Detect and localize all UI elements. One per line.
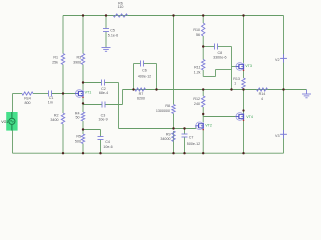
svg-text:1: 1 [234,81,236,85]
wire C2 output branch [83,83,119,129]
svg-text:3900: 3900 [73,60,81,64]
svg-text:C4: C4 [105,140,110,144]
svg-text:110: 110 [118,5,124,9]
wire right supply column [283,16,285,154]
svg-text:4: 4 [261,97,263,101]
wire VT4 gate wire [203,114,236,117]
resistor R13 1 [233,77,245,89]
resistor R9 34000 [160,131,175,142]
svg-text:C8: C8 [217,51,222,55]
wire feedback column R8-R9 [173,16,175,154]
svg-text:10e-9: 10e-9 [98,118,107,122]
transistor VT4 [236,113,253,121]
svg-text:10e-6: 10e-6 [103,145,112,149]
resistor R7 6200 [135,88,146,101]
svg-text:6200: 6200 [137,97,145,101]
svg-text:C7: C7 [189,136,194,140]
svg-text:R1: R1 [53,55,58,59]
wire input gate net [13,94,76,154]
svg-text:1300000: 1300000 [156,109,170,113]
svg-text:V3: V3 [275,134,279,138]
resistor R10 56 [193,23,205,37]
resistor R3 3900 [73,54,85,65]
svg-text:5.1e-6: 5.1e-6 [108,34,118,38]
wire ground stub right [284,89,307,91]
transistor VT1 [75,90,91,98]
capacitor C3 10e-9 [98,102,107,122]
svg-text:1m: 1m [48,101,53,105]
svg-text:R9: R9 [166,132,171,136]
svg-text:500: 500 [75,139,81,143]
resistor R8 1300000 [156,104,175,114]
wire C5 branch [105,16,107,48]
svg-text:25k: 25k [52,60,58,64]
resistor R4 50 [75,112,85,122]
svg-text:R10: R10 [193,28,200,32]
battery V2 [275,54,287,62]
battery V3 [275,130,287,138]
resistor R1 25k [52,54,65,65]
source VG1 [1,112,17,131]
svg-text:R8: R8 [165,104,170,108]
svg-text:R5: R5 [76,135,81,139]
svg-text:VT3: VT3 [245,64,252,68]
svg-text:240: 240 [194,102,200,106]
svg-text:400e-12: 400e-12 [138,74,151,78]
resistor Rs4 800 [22,92,33,105]
wire C3 source branch [83,90,123,105]
wire C8 gate net [203,47,236,90]
svg-text:800: 800 [24,101,30,105]
svg-text:VT2: VT2 [205,124,212,128]
svg-text:R13: R13 [233,77,240,81]
wire bottom supply rail [13,152,284,154]
capacitor C8 3300e-6 [213,44,226,60]
svg-text:VG1: VG1 [1,120,8,124]
resistor R6 110 [113,1,127,17]
pin dot VT4 drain [242,109,244,111]
svg-text:3300e-6: 3300e-6 [213,56,226,60]
resistor R2 3400 [50,113,64,124]
svg-text:68e-4: 68e-4 [99,91,108,95]
resistor R12 240 [193,96,205,107]
ground right [302,90,311,98]
wire C7 branch [184,129,186,154]
svg-text:R3: R3 [77,55,82,59]
svg-text:VT4: VT4 [246,115,253,119]
capacitor C4 10e-6 [98,137,113,149]
svg-text:VT1: VT1 [85,91,92,95]
svg-text:C1: C1 [49,96,54,100]
svg-text:50: 50 [75,116,79,120]
resistor R14 4 [257,88,268,101]
resistor R11 1.2k [194,60,205,75]
svg-text:R11: R11 [194,65,200,69]
svg-text:3400: 3400 [50,118,58,122]
wire top supply rail [63,15,284,17]
svg-text:R12: R12 [193,97,200,101]
transistor VT2 [195,122,211,130]
svg-text:C5: C5 [110,28,115,32]
svg-text:500e-12: 500e-12 [187,142,200,146]
wire C4 branch [83,130,101,154]
capacitor C1 1m [48,91,54,105]
wire VT4 drain-source [243,90,245,154]
wire lower net y128 [119,126,196,129]
svg-text:R2: R2 [54,114,59,118]
capacitor C6 400e-12 [138,61,151,79]
wire left column R1-R2 [62,16,64,154]
capacitor C2 68e-4 [99,80,108,95]
transistor VT3 [236,63,252,71]
svg-text:34000: 34000 [160,137,170,141]
svg-text:V2: V2 [275,58,279,62]
wire VT3 drain-source column [243,16,245,90]
capacitor C7 500e-12 [182,134,201,146]
svg-text:56: 56 [196,33,200,37]
resistor R5 500 [75,134,85,144]
svg-text:1.2k: 1.2k [194,71,201,75]
wire C6 top branch [134,64,157,90]
svg-text:R7: R7 [139,92,144,96]
svg-text:R14: R14 [259,92,266,96]
capacitor C5 5.1e-6 [103,28,118,37]
svg-text:Rs4: Rs4 [24,96,30,100]
wire R11 staircase [203,70,231,77]
wire middle horizontal net [123,89,307,91]
wire bias column R10-R11-R12 [202,16,204,154]
wire base column R3-VT1-R4-R5 [82,16,84,154]
ground for C5 [102,48,111,52]
svg-text:C6: C6 [142,69,147,73]
